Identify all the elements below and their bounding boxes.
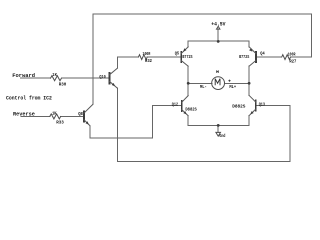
wire top rail (93, 13, 311, 15)
wire Q10 emitter drop (116, 88, 118, 161)
wire Q4 base to R27 (256, 56, 282, 58)
wire +4.5V tap (217, 29, 219, 41)
svg-text:ML+: ML+ (229, 84, 236, 90)
wire motor left (188, 82, 212, 84)
wire right drop (top rail to R27) (310, 14, 312, 57)
svg-text:D882S: D882S (185, 107, 197, 113)
wire bottom rail (117, 161, 290, 163)
wire left riser (Q8 collector to top rail) (92, 14, 94, 104)
svg-text:Q4: Q4 (260, 50, 265, 56)
svg-text:R33: R33 (56, 120, 64, 126)
svg-text:Gnd: Gnd (219, 133, 225, 139)
svg-text:100R: 100R (143, 51, 151, 57)
wire R30 to Q10 base (crosses left riser) (61, 77, 109, 79)
svg-text:D882S: D882S (232, 103, 245, 109)
motor M circle (212, 77, 225, 90)
junction dot motor right node (248, 82, 251, 85)
wire right bridge column (Q4 collector to Q13 collector) (248, 66, 250, 95)
junction dot motor left node (187, 82, 190, 85)
svg-text:1K: 1K (52, 110, 57, 116)
svg-text:R27: R27 (289, 58, 296, 64)
svg-text:Q10: Q10 (99, 74, 106, 80)
svg-text:R30: R30 (59, 82, 67, 88)
wire Q4 emitter stub (248, 41, 250, 47)
wire Q10 collector net to R32 (117, 56, 138, 58)
transistor Q4 (249, 47, 256, 66)
svg-text:Reverse: Reverse (13, 110, 36, 117)
wire to Q13 base (256, 105, 290, 107)
resistor R33 (50, 114, 61, 119)
svg-text:ML-: ML- (200, 84, 207, 90)
svg-text:Q8: Q8 (78, 111, 83, 117)
wire right return riser (289, 106, 291, 162)
wire gnd drop (217, 125, 219, 132)
wire R33 to Q8 base (61, 115, 84, 117)
wire R32 to Q5 base (147, 56, 181, 58)
wire left bridge column (Q5 collector to Q12 collector) (187, 66, 189, 95)
resistor R30 (51, 76, 62, 81)
wire low rail (188, 124, 249, 126)
wire R27 to right drop (291, 56, 312, 58)
svg-text:100R: 100R (288, 51, 296, 57)
label M inside motor (215, 79, 220, 86)
svg-text:+4.5V: +4.5V (211, 22, 225, 28)
junction dot power tap (217, 40, 220, 43)
label + (motor plus) (228, 80, 230, 82)
svg-text:1K: 1K (52, 72, 57, 78)
svg-text:M: M (216, 71, 220, 75)
wire Q13 emitter drop (248, 116, 250, 126)
transistor Q12 (182, 96, 188, 116)
junction dot gnd tap (217, 124, 220, 127)
svg-text:Control from IC2: Control from IC2 (6, 95, 52, 102)
wire motor right (224, 82, 249, 84)
node Reverse: wire from label to R33 (21, 115, 50, 117)
ground Gnd symbol triangle (216, 132, 221, 136)
transistor Q10 (110, 68, 118, 88)
resistor R27 (282, 55, 291, 60)
wire Q10 collector riser (116, 57, 118, 68)
resistor R32 (138, 55, 147, 60)
node Forward: wire from label to R30 (21, 77, 51, 79)
supply +4.5V triangle (217, 26, 220, 29)
transistor Q5 (181, 47, 188, 66)
wire +4.5V power rail (188, 40, 249, 42)
wire Q8 emitter jog (90, 106, 182, 139)
svg-text:Q5: Q5 (175, 50, 180, 56)
svg-text:R32: R32 (145, 58, 152, 64)
transistor Q8 (84, 104, 93, 126)
transistor Q13 (249, 95, 256, 115)
svg-text:B772S: B772S (182, 54, 192, 60)
svg-text:Q12: Q12 (172, 101, 179, 107)
svg-text:B772S: B772S (239, 54, 249, 60)
wire Q5 emitter stub (187, 41, 189, 47)
svg-text:Forward: Forward (12, 72, 35, 79)
wire Q12 emitter drop (187, 116, 189, 126)
svg-text:Q13: Q13 (259, 101, 266, 107)
